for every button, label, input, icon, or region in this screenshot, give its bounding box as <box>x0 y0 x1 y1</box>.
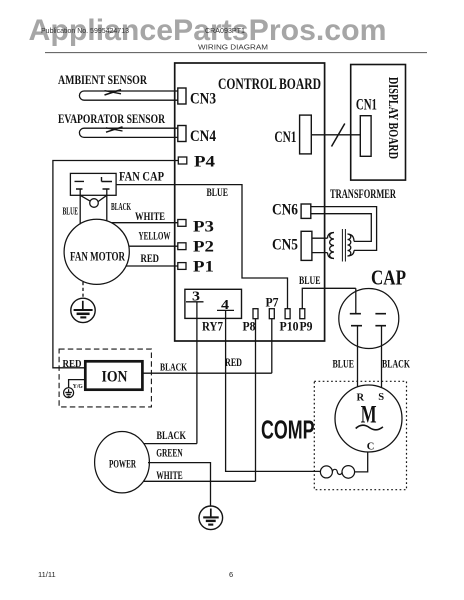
ground ION <box>64 388 74 398</box>
svg-text:S: S <box>378 392 384 403</box>
svg-text:CRA093PT1: CRA093PT1 <box>205 26 245 35</box>
evaporator sensor probe <box>79 127 177 138</box>
fan cap plates <box>75 177 113 189</box>
control board U1 outline <box>175 63 325 341</box>
svg-text:WIRING DIAGRAM: WIRING DIAGRAM <box>198 43 268 52</box>
svg-text:BLACK: BLACK <box>111 202 131 213</box>
display board outline <box>351 65 406 181</box>
compressor motor circle <box>335 385 402 452</box>
wire CN6 outer loop to transformer secondary <box>311 207 377 251</box>
svg-text:P4: P4 <box>194 154 215 171</box>
svg-text:BLACK: BLACK <box>382 359 410 371</box>
connector CN5 <box>301 231 312 260</box>
compressor dotted enclosure <box>314 381 406 489</box>
connector CN6 <box>301 204 311 218</box>
ground fan motor <box>71 298 95 322</box>
wire black ION to P7 <box>142 372 271 374</box>
svg-text:RY7: RY7 <box>202 320 223 334</box>
wire cap to compressor R (blue) <box>357 326 359 387</box>
svg-text:6: 6 <box>229 570 233 579</box>
wire P8 to power white <box>255 319 257 482</box>
wire power black to RY7 pin3 <box>144 443 197 445</box>
svg-text:RED: RED <box>63 358 82 370</box>
svg-text:P1: P1 <box>193 259 214 276</box>
overload protector circles <box>320 466 332 478</box>
cap plates <box>350 314 386 326</box>
svg-text:CN6: CN6 <box>272 202 298 219</box>
svg-text:CN3: CN3 <box>190 91 216 108</box>
svg-text:P10: P10 <box>280 320 299 334</box>
wire RY7 pin4 red to overload <box>226 311 321 472</box>
svg-text:CN4: CN4 <box>190 128 216 145</box>
wire red motor to P1 <box>126 265 178 267</box>
svg-text:DISPLAY BOARD: DISPLAY BOARD <box>386 77 401 159</box>
svg-text:BLACK: BLACK <box>160 361 187 373</box>
svg-text:FAN MOTOR: FAN MOTOR <box>70 249 125 264</box>
cable slash mark <box>332 124 345 147</box>
connector P4 <box>178 157 187 164</box>
svg-text:RED: RED <box>225 357 242 369</box>
wire RY7 pin3 to power black <box>196 302 198 444</box>
svg-text:P3: P3 <box>193 219 214 236</box>
svg-text:C: C <box>367 442 375 453</box>
power plug circle <box>95 432 150 493</box>
svg-text:P7: P7 <box>266 296 279 310</box>
svg-text:P9: P9 <box>300 320 313 334</box>
wire compressor C to overload <box>355 452 368 472</box>
svg-text:CN1: CN1 <box>274 129 296 146</box>
svg-text:YELLOW: YELLOW <box>139 229 171 243</box>
fan motor circle <box>64 219 129 284</box>
pin 3 contact line <box>186 301 204 303</box>
connector P2 <box>178 243 186 250</box>
svg-text:BLACK: BLACK <box>157 428 187 442</box>
wire cap to compressor S (black) <box>381 326 383 388</box>
svg-text:P8: P8 <box>243 320 256 334</box>
wire CN5 to transformer primary <box>312 238 328 252</box>
wire yellow motor to P2 <box>129 245 178 247</box>
dashed wire motor to ground <box>82 282 84 298</box>
svg-text:P2: P2 <box>193 239 214 256</box>
svg-text:WHITE: WHITE <box>135 209 165 223</box>
connector CN3 <box>178 88 186 104</box>
ION generator box <box>85 361 142 389</box>
svg-text:COMP: COMP <box>261 415 315 445</box>
connector CN4 <box>178 126 186 142</box>
svg-text:WHITE: WHITE <box>156 468 183 482</box>
svg-text:GREEN: GREEN <box>156 446 183 460</box>
connector P10 <box>285 309 290 319</box>
wire P4 to ION (red) <box>53 161 178 368</box>
svg-text:BLUE: BLUE <box>207 187 229 199</box>
connector P8 <box>253 309 258 319</box>
ambient sensor probe <box>79 90 177 101</box>
motor hub circle <box>90 199 99 208</box>
wire CN6 inner loop to transformer secondary <box>311 214 372 242</box>
compressor tilde <box>356 425 383 430</box>
overload squiggle <box>332 469 342 474</box>
connector P9 <box>300 309 305 319</box>
wire P9 to cap blue <box>302 288 356 308</box>
svg-text:CONTROL BOARD: CONTROL BOARD <box>218 76 321 93</box>
svg-text:BLUE: BLUE <box>63 207 79 218</box>
ground power <box>199 506 223 530</box>
wire power white to P8 <box>144 480 256 482</box>
svg-text:BLUE: BLUE <box>299 275 321 287</box>
svg-text:FAN CAP: FAN CAP <box>119 170 164 184</box>
connector P7 <box>269 309 274 319</box>
svg-text:EVAPORATOR SENSOR: EVAPORATOR SENSOR <box>58 111 165 126</box>
wire P7 to ion black <box>271 319 273 374</box>
header rule line <box>45 52 427 54</box>
svg-text:11/11: 11/11 <box>38 570 56 579</box>
pin 4 contact line <box>217 309 234 311</box>
cap blue terminal wire <box>355 288 357 313</box>
wire white motor to P3 <box>111 222 177 224</box>
fan cap box <box>70 173 116 195</box>
wire cap to fan motor verticals <box>80 195 107 224</box>
svg-text:CN1: CN1 <box>356 97 377 114</box>
relay RY7 box <box>185 289 242 318</box>
svg-text:4: 4 <box>221 298 229 313</box>
svg-text:POWER: POWER <box>109 459 136 471</box>
svg-text:M: M <box>361 402 377 429</box>
ION dashed enclosure <box>59 349 151 407</box>
svg-text:Y/G: Y/G <box>73 384 83 390</box>
motor hub V lines <box>80 195 107 201</box>
wire power green to ground <box>148 463 211 507</box>
svg-text:CN5: CN5 <box>272 237 298 254</box>
svg-text:AMBIENT SENSOR: AMBIENT SENSOR <box>58 72 147 87</box>
svg-text:CAP: CAP <box>371 266 406 290</box>
connector CN1 display board <box>360 116 371 157</box>
svg-text:ION: ION <box>102 369 128 386</box>
wire ION to ground <box>69 380 86 388</box>
connector P1 <box>178 263 186 270</box>
fan cap terminal wires <box>80 189 107 195</box>
svg-text:Publication No. 5995424713: Publication No. 5995424713 <box>41 26 129 35</box>
transformer T1 <box>328 229 355 262</box>
svg-text:3: 3 <box>192 290 200 305</box>
svg-text:TRANSFORMER: TRANSFORMER <box>330 187 397 201</box>
connector CN1 control board <box>300 115 312 154</box>
svg-text:BLUE: BLUE <box>333 359 355 371</box>
capacitor CAP circle <box>339 289 399 349</box>
wire fan cap to P10 (blue) <box>116 185 287 309</box>
wire CN1 to display board <box>311 134 360 136</box>
svg-text:RED: RED <box>141 251 160 265</box>
connector P3 <box>178 220 186 227</box>
